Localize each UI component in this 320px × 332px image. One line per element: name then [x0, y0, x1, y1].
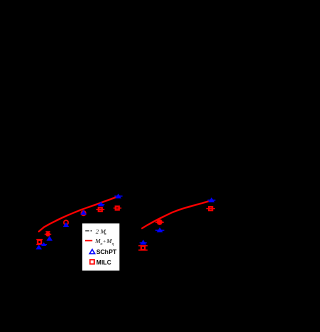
right panel fit curve (red)	[142, 201, 208, 228]
left point 3: MILC red open circle at (66,222.5)	[64, 220, 68, 224]
legend entry 1: label "2 M_pi5"	[96, 228, 108, 236]
left point 6: MILC red square with wings at (117.3,208.1)	[113, 206, 121, 210]
right point 1: MILC red square with error caps at (143,247.9)	[138, 246, 147, 250]
legend entry 1: dash-dot line sample	[85, 230, 92, 232]
left panel fit curve (red)	[39, 197, 116, 231]
svg-text:MILC: MILC	[96, 259, 112, 266]
left point 5: MILC red square with wings at (100.3,209.5)	[96, 208, 104, 212]
legend entry 4: label "MILC"	[96, 259, 112, 266]
left point 4: MILC red open circle at (83.5,213.4)	[81, 211, 85, 215]
legend entry 3: label "SChPT"	[96, 249, 117, 256]
legend entry 2: label "M_pi5+M_eta5"	[94, 238, 114, 246]
left point 1: MILC red marker with error caps at (39.5,242)	[36, 240, 42, 245]
left point 5: SChPT blue triangle with bar at (101,204)	[98, 202, 105, 207]
left point 1: small SChPT blue triangle at (43.8,244.3)	[41, 242, 47, 246]
legend entry 2: red solid line sample	[85, 240, 92, 242]
right point 3: SChPT blue triangle with bar at (211.5,200)	[208, 197, 216, 202]
svg-text:+: +	[103, 239, 106, 245]
legend box	[82, 223, 119, 270]
legend entry 4: red open square sample	[90, 260, 94, 264]
left point 6: SChPT blue triangle with bar at (118.3,196.2)	[114, 194, 122, 199]
left point 1: SChPT blue triangle at (38.8,247.2)	[36, 245, 42, 250]
svg-text:η: η	[112, 241, 114, 246]
svg-text:SChPT: SChPT	[96, 249, 117, 256]
legend entry 3: blue open triangle sample	[90, 249, 95, 253]
right point 3: MILC red square with wings at (210.6,208.6)	[206, 207, 215, 211]
left point 4: SChPT blue triangle at (83.5,212.4)	[80, 210, 86, 215]
left point 2: SChPT blue triangle at (48.9,238.5)	[46, 236, 52, 241]
right point 2: SChPT blue triangle with bar at (159.8,229.9)	[155, 227, 164, 232]
right point 1: SChPT blue triangle with bar at (143.2,242.4)	[140, 240, 147, 245]
left point 3: SChPT blue triangle at (66,224.8)	[63, 222, 69, 227]
left point 2: MILC red filled circle with caps at (47.9,234.2)	[45, 232, 52, 237]
right point 2: MILC red filled circle at (159.6,222.1)	[155, 219, 163, 225]
